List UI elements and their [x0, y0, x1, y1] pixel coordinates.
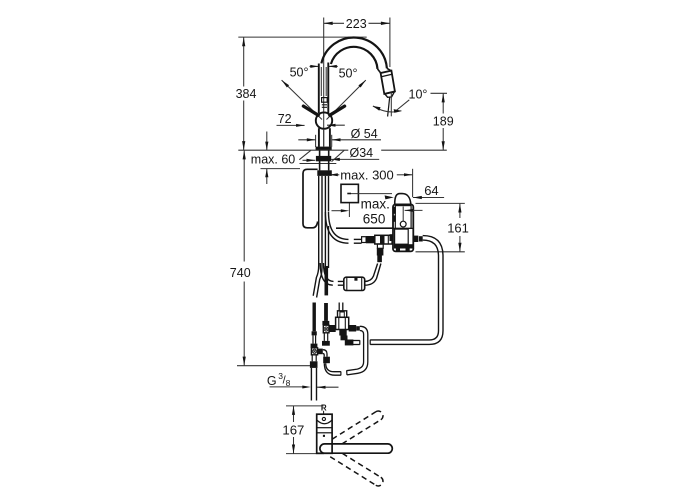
dimension 167 (top view depth)	[282, 406, 324, 454]
svg-text:384: 384	[236, 87, 257, 101]
left non-return valve body	[311, 348, 317, 355]
svg-text:223: 223	[346, 17, 367, 31]
svg-text:max. 300: max. 300	[340, 168, 393, 183]
mounting shank	[316, 150, 332, 176]
svg-text:189: 189	[433, 114, 454, 128]
spray head	[378, 68, 395, 97]
tee piece to control box	[362, 235, 392, 244]
control box outlet	[413, 236, 422, 242]
check valve body	[336, 317, 349, 329]
svg-text:72: 72	[278, 112, 292, 126]
right column bottom flange	[322, 341, 330, 346]
hose to control box	[325, 212, 361, 243]
dimension 189 (spray height)	[433, 93, 454, 150]
dimension 10 deg (spray angle)	[396, 88, 447, 111]
touch sensor square	[341, 184, 394, 202]
dimension 50 deg right (lever swing)	[327, 65, 366, 120]
check valve right outlet	[349, 325, 360, 332]
dimension 161 (box height)	[416, 203, 469, 251]
top view spout swung up (dashed)	[332, 411, 383, 444]
dimension max. 60 (counter thickness)	[251, 132, 300, 185]
svg-text:650: 650	[363, 211, 386, 226]
left supply hose below break	[313, 303, 316, 332]
G 3/8 union nut	[310, 361, 318, 368]
top view faucet body	[317, 414, 332, 453]
dimension 384 (height above counter)	[236, 37, 367, 150]
lever right position	[330, 106, 345, 115]
spray swing arc	[373, 106, 402, 113]
check valve (Aquastop) cap	[338, 311, 347, 318]
svg-text:161: 161	[447, 220, 469, 235]
svg-text:Ø34: Ø34	[350, 146, 374, 160]
left valve outlet fitting	[318, 349, 323, 355]
R marking	[321, 404, 327, 414]
dimension diameter 54 (base flange)	[298, 124, 381, 147]
dimension 223 (top spout reach)	[324, 17, 390, 67]
right valve nut	[322, 321, 329, 325]
right valve outlet to check valve	[329, 325, 336, 332]
dimension max. 650 (hose extraction)	[332, 197, 394, 229]
countertop surface	[238, 150, 446, 163]
svg-text:G: G	[267, 374, 277, 388]
svg-text:Ø 54: Ø 54	[351, 127, 378, 141]
left tube	[313, 335, 316, 343]
check valve bottom hose	[345, 340, 360, 346]
lever column	[319, 63, 329, 114]
check valve under tee	[377, 244, 384, 262]
control box	[390, 204, 423, 251]
outlet hose big loop	[370, 236, 443, 345]
hose bundle under shank	[313, 176, 328, 298]
spray stream reference lines	[388, 93, 392, 117]
dimension 72 (lever length)	[277, 112, 305, 127]
left valve lower tube	[312, 355, 316, 362]
base flange	[316, 147, 332, 151]
svg-text:740: 740	[230, 266, 251, 280]
right supply hose below break	[324, 303, 328, 321]
damper (flow restrictor)	[344, 277, 365, 290]
left valve nut	[311, 344, 318, 348]
check valve outlet hook hose	[347, 326, 368, 375]
dimension max. 300 (counter to box)	[329, 168, 412, 198]
dimension diameter 34 (shank)	[303, 146, 380, 162]
svg-text:max. 60: max. 60	[251, 153, 296, 167]
right non-return valve body	[323, 325, 329, 333]
top view spout (solid)	[320, 444, 392, 453]
lever clip detail	[322, 98, 328, 108]
left hose connector	[312, 331, 317, 335]
damper hose to check valve	[365, 264, 381, 286]
svg-text:10°: 10°	[409, 88, 428, 102]
svg-text:64: 64	[424, 183, 438, 198]
ball joint	[316, 112, 332, 128]
right valve lower tube	[324, 333, 327, 341]
dimension G 3/8 (supply thread)	[267, 371, 339, 389]
check valve bottom outlet	[339, 330, 347, 341]
svg-text:50°: 50°	[339, 66, 358, 80]
svg-text:167: 167	[282, 423, 304, 438]
faucet centerline	[323, 18, 325, 147]
base column below ball	[319, 128, 330, 147]
dimension 64 (box depth)	[413, 183, 444, 199]
spout arc outer	[321, 38, 387, 69]
hose to damper	[320, 263, 344, 285]
svg-text:50°: 50°	[290, 66, 309, 80]
dimension 50 deg left (lever swing)	[282, 65, 322, 120]
control box cover	[395, 194, 411, 205]
check valve inlet stem	[339, 303, 343, 311]
top view spout swung down (dashed)	[330, 453, 383, 486]
left valve outlet elbow hose	[323, 350, 341, 376]
pull-out hose loop	[303, 169, 318, 228]
lever left position	[303, 106, 318, 115]
dimension 740 (depth below counter)	[230, 150, 310, 365]
spout arc inner	[331, 47, 378, 69]
supply pipe	[311, 368, 316, 401]
